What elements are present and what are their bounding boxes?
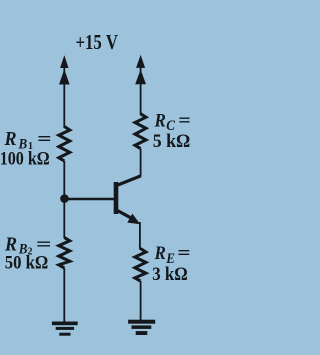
wire: emitter wire down to RE: [139, 222, 141, 250]
transistor Q1 emitter lead with arrow: [117, 210, 141, 224]
wire: left branch from supply arrow down to RB1: [63, 58, 65, 128]
node B (junction dot at transistor base divider): [60, 194, 69, 203]
svg-text:5 kΩ: 5 kΩ: [153, 130, 191, 151]
resistor RC: [135, 114, 146, 149]
svg-text:+15 V: +15 V: [76, 31, 119, 54]
wire: base wire from divider node to transistor: [65, 198, 115, 201]
svg-text:R: R: [154, 110, 166, 131]
label RB1 =: [4, 128, 52, 152]
label RE value 3 kOhm: [152, 263, 188, 284]
label RC value 5 kOhm: [153, 130, 191, 151]
label RC =: [154, 110, 191, 133]
wire: collector wire from RC down to transistor: [140, 149, 142, 176]
resistor RE: [135, 249, 146, 282]
wire: right branch from RE to ground: [140, 281, 142, 321]
svg-text:3 kΩ: 3 kΩ: [152, 263, 188, 284]
label RB2 =: [4, 234, 51, 258]
resistor RB1: [59, 127, 70, 162]
power arrow (left, +15V): [59, 55, 70, 84]
power arrow (right, +15V): [135, 55, 146, 85]
ground (left): [52, 322, 78, 336]
svg-text:=: =: [37, 128, 52, 149]
svg-text:=: =: [177, 242, 190, 263]
label RB2 value 50 kOhm: [5, 252, 49, 273]
svg-text:=: =: [178, 110, 191, 131]
supply label +15 V: [76, 31, 119, 54]
wire: right branch from supply arrow down to RC: [140, 58, 142, 115]
svg-text:100 kΩ: 100 kΩ: [0, 148, 50, 169]
label RE =: [154, 242, 191, 266]
ground (right): [128, 320, 155, 335]
transistor Q1 collector lead: [117, 176, 142, 186]
wire: left branch between RB1 and RB2: [63, 161, 65, 238]
resistor RB2: [59, 238, 70, 269]
label RB1 value 100 kOhm: [0, 148, 50, 169]
transistor Q1 base bar: [114, 182, 119, 214]
svg-text:50 kΩ: 50 kΩ: [5, 252, 49, 273]
wire: left branch from RB2 to ground: [63, 268, 65, 322]
svg-text:R: R: [154, 242, 166, 263]
